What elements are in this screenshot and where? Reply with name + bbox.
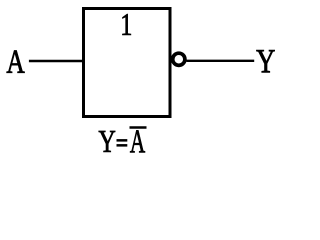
node A (input label) — [7, 51, 25, 73]
gate body U1 (IEC inverter rectangle) — [84, 9, 171, 117]
node Y (output label) — [256, 50, 274, 72]
label 1 (IEC buffer function) — [122, 14, 131, 35]
wire output — [187, 60, 255, 62]
inversion bubble — [173, 53, 185, 65]
value label: equals (lower bar) — [117, 144, 128, 147]
overline of A — [130, 126, 147, 128]
wire input — [29, 60, 82, 62]
value label: Y — [99, 131, 116, 152]
value label: A (inverted) — [130, 130, 145, 152]
value label: equals (upper bar) — [117, 139, 128, 142]
